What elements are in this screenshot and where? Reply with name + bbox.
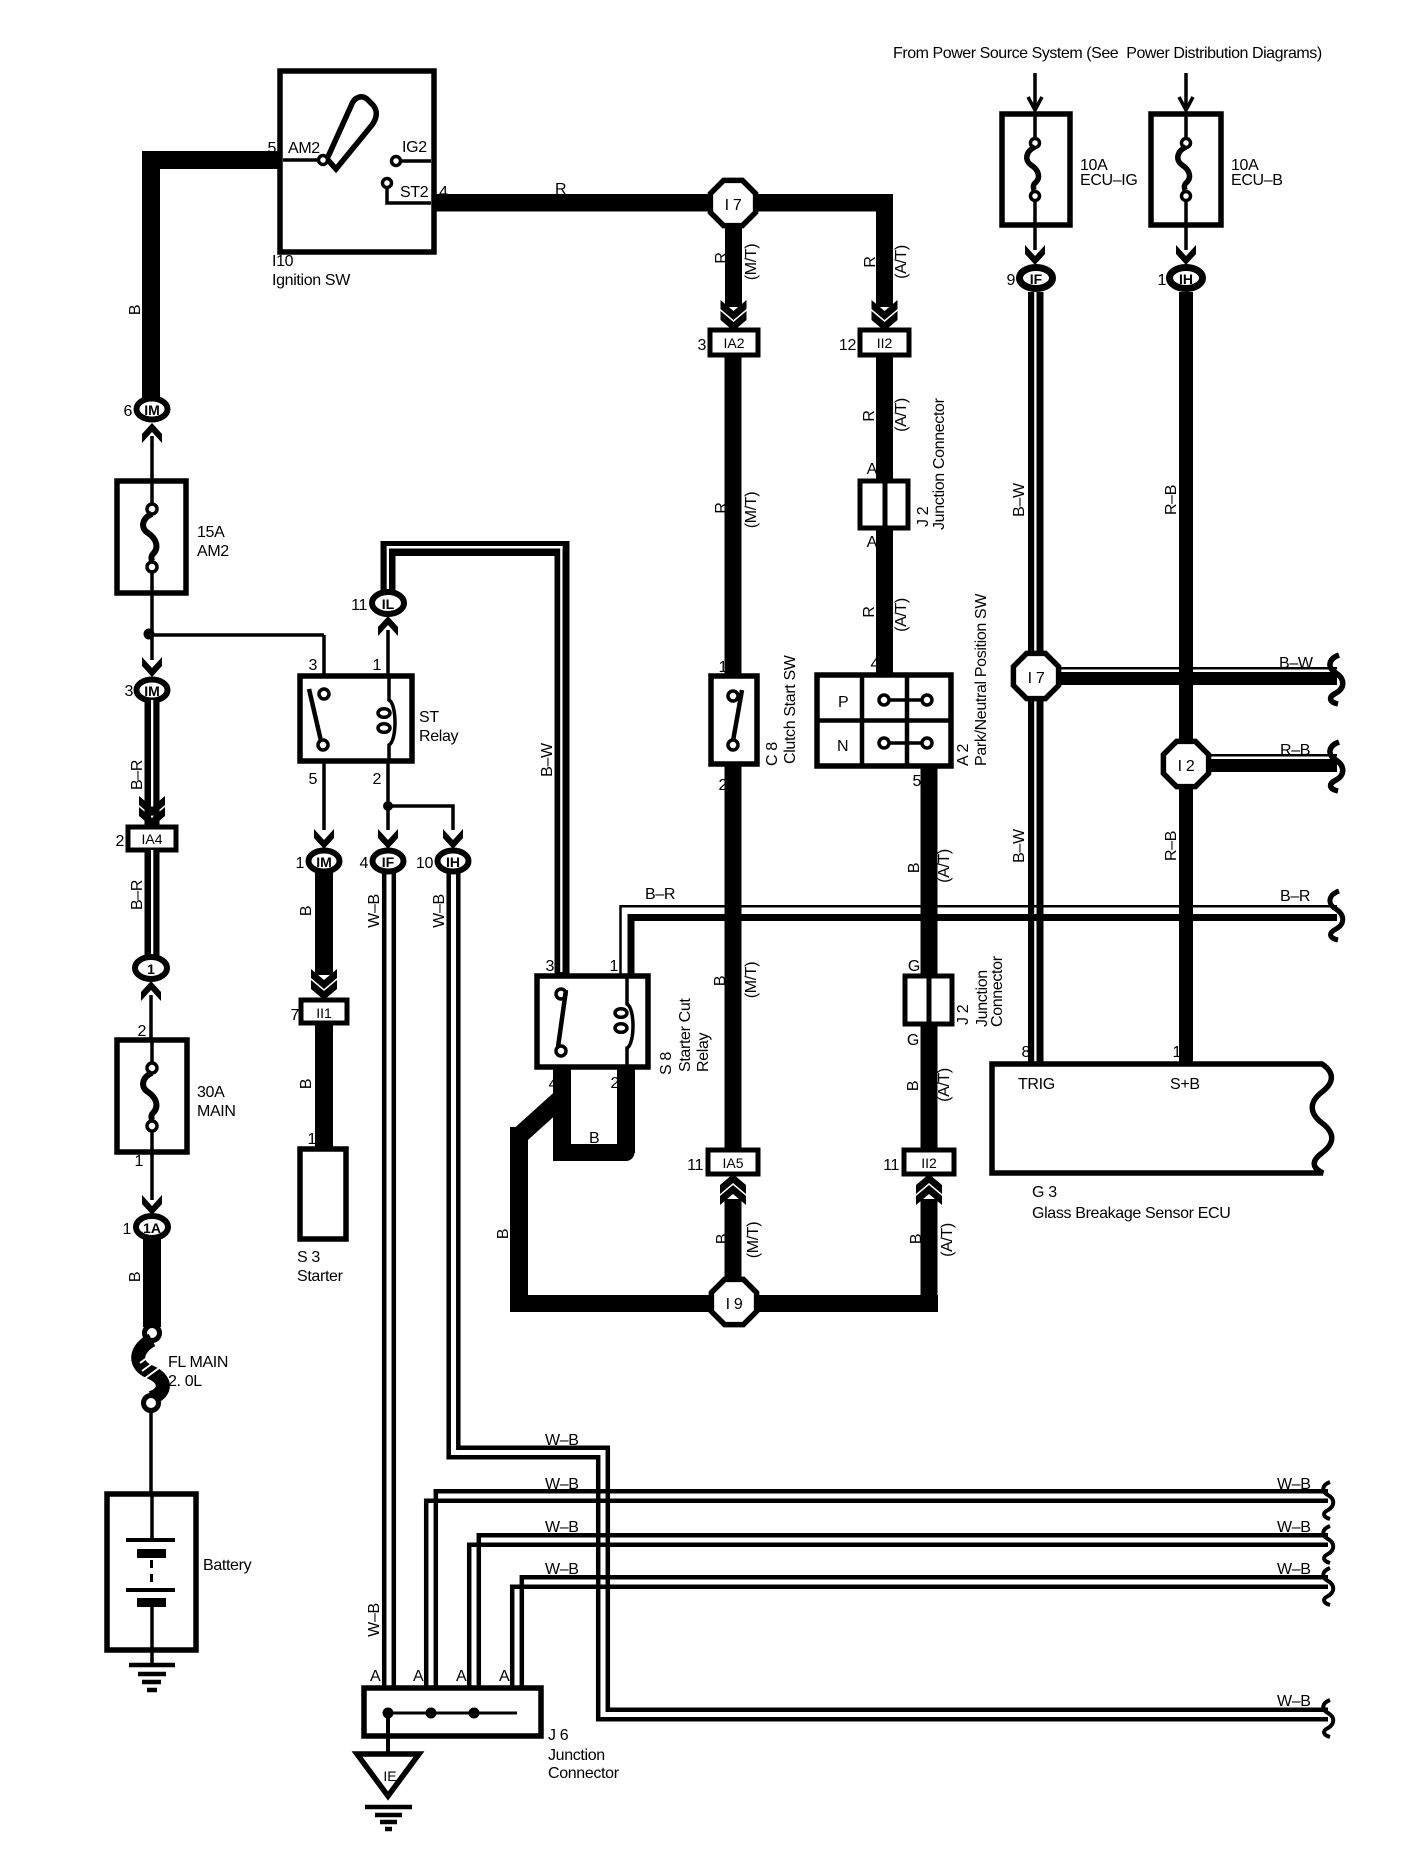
arrow into IM3: [142, 657, 162, 677]
wire IM6 to fuse 15A: [150, 436, 154, 481]
svg-text:IE: IE: [383, 1768, 396, 1784]
wire W-B pair from IH down, right, down, right to break: [449, 872, 1328, 1719]
fuse 10A ECU-IG: [1002, 114, 1137, 225]
wire B-W vertical from IF to Glass Breakage Sensor ECU: [1028, 292, 1044, 1064]
svg-text:A 2: A 2: [955, 743, 972, 766]
svg-text:IH: IH: [1179, 271, 1193, 287]
svg-text:A: A: [370, 1668, 381, 1685]
svg-text:R–B: R–B: [1163, 831, 1180, 861]
svg-text:Junction Connector: Junction Connector: [931, 397, 948, 530]
wire II2 to J2 junction connector: [876, 355, 893, 483]
label 2 above fuse: [137, 1023, 146, 1040]
svg-text:W–B: W–B: [545, 1561, 579, 1578]
svg-text:R: R: [861, 410, 878, 421]
svg-text:Starter: Starter: [297, 1268, 344, 1285]
ground connector IE: [357, 1754, 419, 1796]
svg-text:Ignition SW: Ignition SW: [272, 272, 351, 289]
label B: [298, 1079, 315, 1089]
arrow into IM1: [314, 829, 334, 849]
svg-text:B–W: B–W: [1279, 655, 1314, 672]
wire J2 lower to II2 lower: [921, 1024, 938, 1152]
ground below battery: [129, 1665, 175, 1690]
svg-text:(A/T): (A/T): [893, 598, 910, 632]
arrow into II1: [311, 969, 337, 1000]
svg-text:MAIN: MAIN: [197, 1103, 236, 1120]
arrow into 1A: [142, 1195, 162, 1215]
labels W-B left column: [545, 1432, 579, 1578]
wire W-B corner row 2: [426, 1491, 1328, 1710]
label B-R lower: [129, 880, 146, 910]
svg-text:Battery: Battery: [203, 1557, 252, 1574]
svg-text:W–B: W–B: [1277, 1519, 1311, 1536]
wire: fuse ECU-B to connector IH: [1184, 225, 1188, 250]
svg-text:(M/T): (M/T): [743, 492, 760, 528]
label 1 at ST relay: [372, 657, 381, 674]
svg-text:8: 8: [1021, 1044, 1030, 1061]
svg-text:1A: 1A: [143, 1220, 161, 1236]
svg-text:9: 9: [1006, 272, 1015, 289]
connector IM pin 6: [123, 399, 167, 421]
svg-text:J 2: J 2: [955, 1004, 972, 1025]
junction I2: [1163, 741, 1208, 786]
svg-text:ECU–IG: ECU–IG: [1080, 172, 1137, 189]
svg-text:S+B: S+B: [1170, 1076, 1200, 1093]
park/neutral position SW A2: [817, 593, 990, 790]
svg-text:Park/Neutral Position SW: Park/Neutral Position SW: [973, 593, 990, 766]
svg-text:IG2: IG2: [402, 139, 427, 156]
label B: [298, 906, 315, 916]
svg-text:(A/T): (A/T): [939, 1223, 956, 1257]
svg-text:Connector: Connector: [548, 1765, 620, 1782]
svg-text:IL: IL: [382, 596, 395, 612]
fuse 10A ECU-B: [1151, 114, 1283, 225]
arrow up into IM6: [142, 423, 162, 443]
svg-text:TRIG: TRIG: [1018, 1076, 1055, 1093]
svg-text:3: 3: [308, 657, 317, 674]
label 5: [308, 771, 317, 788]
wire B-R thin horizontal to right break: [621, 906, 1338, 977]
svg-text:B: B: [589, 1130, 599, 1147]
svg-text:J 6: J 6: [548, 1727, 569, 1744]
svg-text:B–W: B–W: [1011, 482, 1028, 517]
label B inside loop: [589, 1130, 599, 1147]
svg-text:B: B: [127, 305, 144, 315]
svg-text:B–R: B–R: [1280, 888, 1310, 905]
svg-text:5: 5: [308, 771, 317, 788]
svg-text:4: 4: [359, 855, 368, 872]
label B (A/T) below A2: [906, 849, 953, 883]
svg-text:(A/T): (A/T): [936, 1068, 953, 1102]
svg-text:1: 1: [134, 1153, 143, 1170]
wire from I7 down to IA2: [725, 225, 742, 307]
svg-text:G: G: [907, 1032, 919, 1049]
svg-text:(A/T): (A/T): [893, 245, 910, 279]
label G below J2 lower: [907, 1032, 919, 1049]
label R (A/T) upper: [862, 245, 910, 279]
ignition key symbol: [327, 97, 376, 169]
svg-text:B: B: [714, 1234, 731, 1244]
svg-text:R–B: R–B: [1280, 742, 1310, 759]
wire clutch SW to IA5: [725, 764, 742, 1152]
wire: feed arrow into ECU-IG fuse: [1028, 73, 1042, 110]
svg-text:11: 11: [687, 1157, 703, 1174]
wire R-B horizontal from junction I2 to right break: [1200, 754, 1337, 772]
svg-text:B–R: B–R: [645, 886, 675, 903]
svg-text:6: 6: [123, 403, 132, 420]
break symbols W-B right: [1323, 1482, 1333, 1737]
wire W-B corner row 4: [512, 1577, 1328, 1712]
label B (M/T) below clutch: [712, 962, 760, 998]
svg-text:2: 2: [372, 771, 381, 788]
ignition contact IG2: [392, 157, 432, 166]
wire II1 to starter: [315, 1023, 333, 1149]
wire B from IM1 to II1: [315, 872, 333, 975]
label 1 below fuse: [134, 1153, 143, 1170]
connector II2 pin 12: [839, 330, 909, 355]
label B on left I9 wire: [495, 1229, 512, 1239]
wire B-R thick horizontal (starter cut relay pin1 feed): [631, 918, 1337, 978]
label B (M/T) above I9: [714, 1222, 762, 1258]
wire B-R IA4 to node 1: [145, 850, 160, 956]
label W-B: [366, 894, 383, 928]
svg-text:B–W: B–W: [1011, 828, 1028, 863]
wire B-R IM3 to IA4: [145, 700, 160, 828]
svg-text:ECU–B: ECU–B: [1231, 172, 1283, 189]
connector IL pin 11: [351, 592, 404, 614]
label R (A/T) mid: [861, 398, 910, 432]
svg-text:W–B: W–B: [366, 1603, 383, 1637]
break symbol R-B: [1330, 742, 1343, 791]
svg-text:B: B: [906, 863, 923, 873]
svg-text:B: B: [495, 1229, 512, 1239]
label W-B lower: [366, 1603, 383, 1637]
starter cut relay S8: [537, 958, 712, 1093]
clutch start SW C8: [711, 654, 799, 794]
ST relay: [300, 676, 459, 761]
wire B-W horizontal from junction I7 to right break: [1050, 667, 1337, 685]
svg-text:R: R: [713, 502, 730, 513]
junction I7 (left): [710, 180, 755, 225]
label G above J2 lower: [908, 958, 920, 975]
label 2: [372, 771, 381, 788]
break symbol B-R pair: [1330, 891, 1343, 940]
connector IF pin 4: [359, 851, 403, 873]
svg-text:W–B: W–B: [545, 1476, 579, 1493]
svg-text:Starter Cut: Starter Cut: [677, 998, 694, 1072]
label B-R right: [1280, 888, 1310, 905]
svg-text:5: 5: [912, 773, 921, 790]
svg-text:IM: IM: [144, 683, 160, 699]
svg-text:A: A: [867, 461, 878, 478]
label 1 at starter: [307, 1131, 316, 1148]
label R: [555, 181, 566, 198]
break symbol B-W: [1330, 655, 1343, 704]
svg-text:A: A: [413, 1668, 424, 1685]
label B-R upper: [129, 760, 146, 790]
connector node 1: [135, 957, 167, 979]
label W-B: [431, 894, 448, 928]
connector IH pin 10: [416, 851, 469, 873]
svg-text:1: 1: [372, 657, 381, 674]
connector II1 pin 7: [290, 1000, 347, 1024]
fuse 15A AM2: [117, 481, 229, 593]
svg-text:G 3: G 3: [1032, 1184, 1057, 1201]
label 4 at A2 pin: [870, 656, 879, 673]
arrow into IF: [378, 829, 398, 849]
wire fuse to junction dot: [150, 593, 154, 660]
svg-text:I 7: I 7: [1028, 670, 1045, 687]
svg-text:1: 1: [1157, 272, 1166, 289]
svg-text:(M/T): (M/T): [743, 962, 760, 998]
svg-text:IA2: IA2: [723, 335, 744, 351]
battery: [107, 1494, 252, 1663]
svg-text:I10: I10: [272, 253, 294, 270]
svg-text:(A/T): (A/T): [936, 849, 953, 883]
label R (A/T) lower: [861, 598, 910, 632]
label R-B right: [1280, 742, 1310, 759]
svg-text:2: 2: [115, 833, 124, 850]
ignition switch wire AM2 thick corner: [142, 151, 283, 403]
svg-text:2. 0L: 2. 0L: [168, 1373, 202, 1390]
label B on AM2 wire: [127, 305, 144, 315]
svg-text:II1: II1: [316, 1005, 332, 1021]
wire IL to ST relay pin 1: [386, 630, 390, 690]
svg-text:P: P: [838, 694, 848, 711]
svg-text:Glass Breakage Sensor ECU: Glass Breakage Sensor ECU: [1032, 1205, 1230, 1222]
label A above J2: [867, 461, 878, 478]
junction connector J2 (upper): [860, 397, 948, 530]
svg-text:B: B: [298, 1079, 315, 1089]
svg-text:C 8: C 8: [764, 742, 781, 766]
wire node1 to fuse 30A: [149, 995, 153, 1040]
connector IF pin 9: [1006, 268, 1052, 290]
svg-text:R: R: [713, 252, 730, 263]
svg-text:12: 12: [839, 337, 857, 354]
wire IL feed corner (B-W): [381, 541, 570, 977]
svg-text:B: B: [712, 976, 729, 986]
label R (M/T) upper: [713, 244, 760, 280]
svg-text:Relay: Relay: [695, 1032, 712, 1072]
wire: fuse ECU-IG to connector IF: [1033, 225, 1037, 250]
junction I9: [711, 1279, 756, 1324]
Glass Breakage Sensor ECU G3 box: [992, 1044, 1332, 1222]
arrow up into node 1: [141, 981, 161, 1001]
svg-text:W–B: W–B: [1277, 1476, 1311, 1493]
svg-text:A: A: [499, 1668, 510, 1685]
svg-text:1: 1: [609, 958, 618, 975]
label R (M/T) mid: [713, 492, 760, 528]
svg-text:IA4: IA4: [141, 831, 162, 847]
svg-text:3: 3: [124, 683, 133, 700]
wire I9 horizontal: [510, 1199, 938, 1312]
svg-text:IA5: IA5: [722, 1155, 743, 1171]
label 3 at ST relay: [308, 657, 317, 674]
svg-text:AM2: AM2: [197, 543, 229, 560]
svg-text:AM2: AM2: [288, 140, 320, 157]
svg-text:IM: IM: [144, 402, 160, 418]
svg-text:B: B: [298, 906, 315, 916]
svg-text:7: 7: [290, 1007, 299, 1024]
svg-text:1: 1: [147, 961, 155, 977]
connector IA5 pin 11: [687, 1150, 758, 1174]
arrow into IH: [1176, 245, 1196, 265]
svg-text:S 3: S 3: [297, 1249, 320, 1266]
starter S3: [297, 1149, 346, 1285]
wire J6 to IE ground: [386, 1713, 390, 1754]
wire FL to battery: [149, 1411, 153, 1494]
wire ST relay pin5 to IM: [322, 761, 326, 830]
wire IA2 to clutch start SW: [725, 355, 742, 676]
svg-text:From Power Source System (See: From Power Source System (See Power Dist…: [893, 45, 1322, 62]
svg-text:15A: 15A: [197, 524, 225, 541]
connector IM pin 3: [124, 680, 167, 701]
svg-text:Connector: Connector: [989, 955, 1006, 1027]
label B (A/T) lower: [905, 1068, 953, 1102]
svg-text:I 2: I 2: [1178, 758, 1195, 775]
svg-text:S 8: S 8: [658, 1052, 675, 1075]
junction node dot: [144, 629, 155, 640]
svg-text:10: 10: [416, 855, 434, 872]
ground symbol IE: [365, 1807, 412, 1829]
wire R from ignition to II2 corner: [434, 194, 893, 307]
svg-text:(M/T): (M/T): [743, 244, 760, 280]
svg-text:N: N: [837, 738, 848, 755]
wire R-B vertical from IH to Glass Breakage Sensor ECU: [1179, 292, 1193, 1064]
svg-text:Clutch Start SW: Clutch Start SW: [782, 654, 799, 764]
svg-text:11: 11: [351, 597, 367, 614]
svg-text:W–B: W–B: [1277, 1693, 1311, 1710]
labels A at J6: [370, 1668, 510, 1685]
connector II2 lower pin 11: [883, 1150, 954, 1174]
arrow into IA2: [721, 300, 747, 331]
arrow into IF: [1025, 245, 1045, 265]
svg-text:4: 4: [870, 656, 879, 673]
arrow into IH: [443, 829, 463, 849]
svg-text:G: G: [908, 958, 920, 975]
arrow into II2: [872, 300, 898, 331]
label A below J2: [867, 534, 878, 551]
svg-text:W–B: W–B: [431, 894, 448, 928]
svg-text:1: 1: [295, 855, 304, 872]
label B-W right: [1279, 655, 1314, 672]
svg-text:R–B: R–B: [1163, 485, 1180, 515]
junction connector J2 (lower): [905, 955, 1006, 1027]
ignition contact AM2 pin 5: [283, 156, 328, 165]
connector IH pin 1: [1157, 268, 1202, 290]
wire junction dot to ST relay pin 3: [149, 635, 324, 690]
ignition switch I10 box: [267, 71, 448, 289]
svg-text:R: R: [861, 606, 878, 617]
svg-text:B–W: B–W: [539, 742, 556, 777]
wire A2 pin5 to J2 lower: [921, 766, 938, 978]
svg-text:(M/T): (M/T): [745, 1222, 762, 1258]
svg-text:A: A: [456, 1668, 467, 1685]
wire W-B pair from IF down to J6: [384, 872, 394, 1710]
svg-text:IM: IM: [316, 854, 332, 870]
label B: [127, 1272, 144, 1282]
svg-text:1: 1: [122, 1221, 131, 1238]
junction connector J6: [364, 1688, 620, 1782]
svg-text:J 2: J 2: [915, 506, 932, 527]
label B-R left: [645, 886, 675, 903]
svg-text:R: R: [555, 181, 566, 198]
svg-text:(A/T): (A/T): [893, 398, 910, 432]
connector IA2 pin 3: [697, 330, 758, 355]
svg-text:30A: 30A: [197, 1084, 225, 1101]
label B-W on vertical: [539, 742, 556, 777]
label B-W lower: [1011, 828, 1028, 863]
label B-W upper: [1011, 482, 1028, 517]
svg-text:R: R: [862, 256, 879, 267]
svg-text:B: B: [905, 1081, 922, 1091]
svg-text:Relay: Relay: [419, 728, 459, 745]
arrow up into IA5: [720, 1174, 746, 1205]
label B (A/T) right of I9: [908, 1223, 956, 1257]
svg-text:W–B: W–B: [545, 1519, 579, 1536]
svg-text:W–B: W–B: [366, 894, 383, 928]
wire fuse 30A to 1A: [150, 1152, 154, 1200]
connector IA4 pin 2: [115, 827, 176, 850]
connector IM pin 1: [295, 851, 339, 873]
arrow into IA4: [139, 796, 165, 827]
svg-text:1: 1: [1172, 1044, 1181, 1061]
svg-text:B: B: [127, 1272, 144, 1282]
svg-text:Junction: Junction: [548, 1747, 605, 1764]
arrow up into II2 lower: [916, 1174, 942, 1205]
label R-B lower: [1163, 831, 1180, 861]
wire ST relay pin2 to IF / IH: [383, 761, 453, 830]
junction I7 (right): [1013, 653, 1058, 698]
svg-text:3: 3: [697, 337, 706, 354]
wire: feed arrow into ECU-B fuse: [1179, 73, 1193, 110]
svg-text:B–R: B–R: [129, 760, 146, 790]
svg-text:II2: II2: [877, 335, 893, 351]
svg-text:W–B: W–B: [1277, 1561, 1311, 1578]
wire W-B corner row 3: [469, 1535, 1328, 1710]
label R-B upper: [1163, 485, 1180, 515]
svg-text:II2: II2: [921, 1155, 937, 1171]
svg-text:ST: ST: [419, 709, 439, 726]
wire S8 pins 4/2 loop to I9: [510, 1067, 635, 1304]
arrow up into IL: [378, 616, 398, 636]
ignition contact ST2 pin 4: [383, 179, 432, 204]
svg-text:11: 11: [883, 1157, 899, 1174]
svg-text:3: 3: [545, 958, 554, 975]
connector 1A pin 1: [122, 1216, 168, 1238]
svg-text:5: 5: [267, 140, 276, 157]
svg-text:ST2: ST2: [400, 184, 429, 201]
svg-text:IF: IF: [1030, 271, 1043, 287]
svg-text:W–B: W–B: [545, 1432, 579, 1449]
fusible link FL MAIN 2.0L: [138, 1326, 228, 1411]
svg-text:B–R: B–R: [129, 880, 146, 910]
wire J2 to park/neutral SW pin 4: [876, 528, 893, 676]
wire B from 1A to fusible link: [143, 1239, 161, 1327]
svg-text:IF: IF: [382, 854, 395, 870]
svg-text:I 9: I 9: [726, 1296, 743, 1313]
svg-text:1: 1: [307, 1131, 316, 1148]
svg-text:B: B: [908, 1234, 925, 1244]
labels W-B right column: [1277, 1476, 1311, 1710]
fuse 30A MAIN: [117, 1040, 236, 1152]
svg-text:I 7: I 7: [725, 197, 742, 214]
svg-text:IH: IH: [446, 854, 460, 870]
svg-text:FL MAIN: FL MAIN: [168, 1354, 228, 1371]
